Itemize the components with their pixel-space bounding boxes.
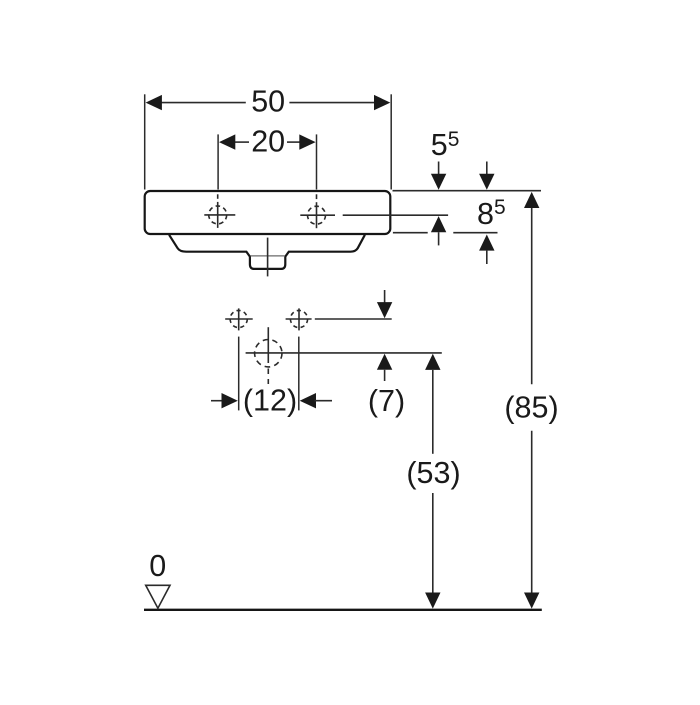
dimension 20 extension line right [316,134,318,189]
dimension 5.5 label [431,128,460,162]
tap hole right crosshair [300,194,335,228]
trap outlet circle [255,340,282,367]
dimension 85 label [504,390,558,424]
svg-text:5: 5 [431,128,448,162]
fixing hole right crosshair [286,308,312,330]
dimension 50 label [251,85,285,119]
tap hole leader line to 8.5 dimension [343,214,448,216]
datum triangle [146,585,170,608]
tap hole left crosshair [204,194,235,228]
svg-text:50: 50 [251,85,285,119]
svg-text:(12): (12) [243,383,297,417]
dimension 50 line [158,102,378,104]
datum zero label [149,549,166,583]
dimension 5.5 down arrow [431,162,446,190]
drain inner edge line [251,255,286,257]
rim bottom extension line right [393,232,498,234]
fixing hole left crosshair [225,308,253,330]
fixing hole left circle [230,310,247,327]
fixing hole right circle [290,310,307,327]
svg-text:5: 5 [448,128,460,151]
svg-text:(7): (7) [368,384,405,418]
dimension 5.5 up arrow [431,216,446,245]
svg-text:5: 5 [494,196,506,219]
trap outlet center line vertical [267,327,269,384]
dimension 7 down arrow [377,290,392,318]
dimension 20 line [234,141,301,143]
dimension 20 label [251,124,285,158]
dimension 53 label [406,456,460,490]
dimension 8.5 down arrow [479,162,494,190]
dimension 12 extension line left [238,337,240,411]
tap hole left circle [209,206,227,224]
tap hole right circle [308,206,326,224]
washbasin bowl underside [169,235,365,269]
rim top extension line right [393,190,542,192]
dimension 7 up arrow [377,354,392,381]
svg-text:20: 20 [251,124,285,158]
dimension 85 line [524,192,539,609]
dimension 53 line [425,354,440,609]
dimension 50 arrow left [146,95,162,110]
floor line [144,609,542,611]
dimension 50 arrow right [374,95,390,110]
dimension 8.5 up arrow [479,235,494,265]
drain center line [267,238,269,277]
svg-text:(53): (53) [406,456,460,490]
svg-text:8: 8 [477,197,494,231]
dimension 12 arrow right [300,393,332,408]
fixing hole leader line [315,318,392,320]
washbasin rim outline [145,191,391,234]
dimension 20 arrow right [299,134,315,149]
dimension 7 label [368,384,405,418]
dimension 50 extension line left [144,94,146,189]
dimension 8.5 label [477,196,506,231]
dimension 20 arrow left [219,134,235,149]
dimension 12 arrow left [211,393,238,408]
svg-text:0: 0 [149,549,166,583]
trap outlet leader line [246,352,442,354]
dimension 12 extension line right [298,337,300,411]
svg-text:(85): (85) [504,390,558,424]
dimension 12 label [243,383,297,417]
dimension 50 extension line right [390,94,392,189]
dimension 20 extension line left [217,134,219,189]
